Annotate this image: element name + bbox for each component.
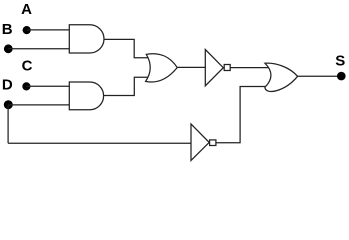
svg-text:S: S (335, 52, 345, 69)
terminal dot B (4, 44, 13, 53)
svg-text:C: C (22, 57, 33, 74)
wire AND2 output to OR1 bottom input (104, 77, 149, 95)
AND gate U2 (inputs C,D) (69, 82, 103, 110)
inverter U4 (triangle with IEC negation square) (205, 50, 230, 86)
svg-text:A: A (21, 1, 32, 18)
wire OR2 output to terminal S (298, 75, 341, 77)
svg-text:D: D (2, 76, 13, 93)
wire D to AND2 bottom input (8, 104, 70, 106)
terminal dot D (4, 100, 13, 109)
wire bottom rail to inverter U5 input (8, 142, 191, 144)
wire OR1 output to inverter U4 input (177, 66, 205, 68)
svg-text:B: B (2, 21, 13, 38)
OR gate U3 (146, 54, 178, 82)
wire D vertical down to bottom rail (7, 105, 9, 144)
terminal dot C (22, 82, 30, 90)
output terminal dot S (337, 72, 346, 81)
OR gate U6 (output stage) (265, 63, 298, 91)
inverter U5 (bottom, triangle with IEC negation square) (191, 124, 216, 161)
wire inverter U5 output up to OR2 bottom input (216, 87, 267, 143)
AND gate U1 (inputs A,B) (69, 25, 104, 53)
wire inverter U4 output to OR2 top input (230, 67, 268, 69)
wire B to AND1 bottom input (8, 48, 70, 50)
wire C to AND2 top input (26, 85, 70, 87)
wire A to AND1 top input (27, 29, 70, 31)
terminal dot A (23, 26, 31, 34)
wire AND1 output to OR1 top input (104, 39, 148, 57)
